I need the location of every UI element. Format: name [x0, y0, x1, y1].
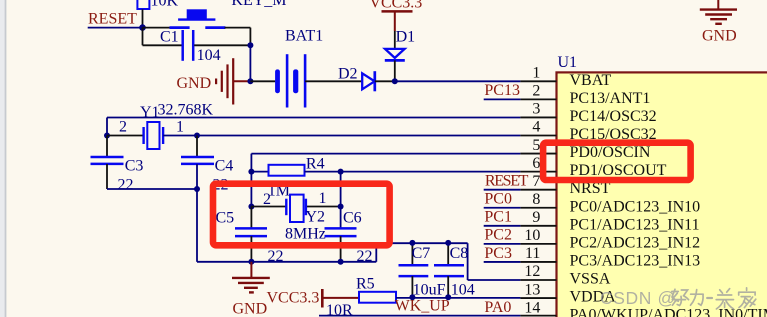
svg-text:2: 2	[119, 119, 127, 136]
node battery rail junction	[247, 78, 253, 84]
svg-text:VCC3.3: VCC3.3	[369, 0, 422, 12]
svg-text:PC3: PC3	[484, 245, 512, 262]
wire node to switch left contact	[143, 27, 171, 29]
node D1/D2 junction	[392, 78, 398, 84]
svg-text:Y2: Y2	[306, 209, 326, 226]
svg-text:2: 2	[532, 83, 540, 100]
svg-text:22: 22	[357, 248, 373, 265]
svg-text:PC1/ADC123_IN11: PC1/ADC123_IN11	[570, 216, 700, 233]
pin 9 PC1/ADC123_IN11	[520, 209, 699, 233]
svg-text:1: 1	[176, 119, 184, 136]
wire gnd drop to ground rail	[197, 164, 376, 262]
resistor R4 1M	[251, 156, 340, 200]
svg-text:D2: D2	[338, 66, 358, 83]
wire VDDA net to pin 13	[396, 297, 520, 299]
svg-text:GND: GND	[702, 28, 737, 45]
svg-text:GND: GND	[177, 75, 212, 92]
svg-text:10uF: 10uF	[413, 282, 446, 299]
node C6 gnd junction	[338, 259, 344, 265]
ground GND (sideways, near BAT1)	[177, 58, 251, 104]
svg-text:BAT1: BAT1	[285, 28, 323, 45]
svg-text:RESET: RESET	[88, 11, 137, 28]
svg-text:13: 13	[524, 281, 540, 298]
svg-text:PC2: PC2	[484, 227, 512, 244]
svg-text:5: 5	[532, 137, 540, 154]
svg-text:R4: R4	[306, 156, 325, 173]
power VCC3.3 (bottom)	[267, 289, 360, 308]
svg-text:C3: C3	[125, 158, 144, 175]
net label PC13	[484, 82, 520, 99]
wire PC3 stub	[484, 261, 521, 263]
pin 6 PD1/OSCOUT	[520, 155, 666, 179]
svg-text:1: 1	[319, 190, 327, 207]
wire PC1 stub	[484, 225, 521, 227]
resistor R5 10R	[326, 276, 396, 317]
node C8 top junction	[445, 240, 451, 246]
wire OSCOUT down	[340, 172, 342, 228]
svg-text:C7: C7	[412, 245, 431, 262]
pin 5 PD0/OSCIN	[520, 137, 650, 161]
capacitor C3 22	[91, 136, 144, 194]
node C5 gnd junction	[248, 259, 254, 265]
net label PC1	[484, 209, 512, 226]
svg-text:11: 11	[525, 245, 540, 262]
svg-text:10: 10	[524, 227, 540, 244]
wire down to battery rail	[249, 45, 251, 81]
net label PC3	[484, 245, 512, 262]
resistor R1 10K pull-up	[137, 0, 178, 10]
node Y1 pin2 junction	[104, 133, 110, 139]
capacitor C6 22	[325, 210, 373, 265]
node C7 bottom junction	[409, 294, 415, 300]
net label PC2	[484, 227, 512, 244]
wire switch right contact to corner	[225, 28, 251, 46]
svg-text:R5: R5	[356, 276, 375, 293]
node Y1 pin1 junction	[194, 133, 200, 139]
pin 12 VSSA	[520, 263, 610, 287]
node Y2 pin2 junction	[248, 204, 254, 210]
svg-text:8: 8	[532, 191, 540, 208]
crystal Y2 8MHz	[251, 190, 340, 243]
wire Y1 pin2 stub	[107, 135, 143, 137]
push button KEY_M	[170, 0, 287, 28]
wire RESET stub	[484, 189, 521, 191]
node C7 top junction	[409, 240, 415, 246]
net label WK_UP	[395, 298, 450, 315]
pin 11 PC3/ADC123_IN13	[520, 245, 700, 269]
wire gnd jog to VSSA	[376, 243, 520, 280]
wire WK_UP net to pin 14	[319, 315, 520, 317]
svg-text:C4: C4	[215, 158, 234, 175]
svg-text:PA0/WKUP/ADC123_IN0/TIM2_CH1_E: PA0/WKUP/ADC123_IN0/TIM2_CH1_ETR	[570, 307, 767, 317]
wire RESET stub	[88, 27, 143, 29]
watermark CSDN	[600, 288, 756, 309]
svg-text:PA0: PA0	[484, 299, 511, 316]
svg-text:32.768K: 32.768K	[158, 102, 214, 119]
ground GND (bottom)	[232, 262, 270, 317]
wire pin 6 net (PD1/OSCOUT)	[341, 171, 521, 173]
annotation red box around 8MHz crystal	[213, 184, 390, 246]
capacitor C4 22	[181, 136, 233, 194]
svg-text:2: 2	[263, 191, 271, 208]
crystal Y1 32.768K	[119, 102, 214, 150]
svg-text:GND: GND	[233, 301, 268, 317]
pin 1 VBAT	[520, 65, 611, 89]
node R4 right junction	[338, 169, 344, 175]
pin 7 NRST	[520, 173, 610, 197]
pin 2 PC13/ANT1	[520, 83, 650, 107]
svg-text:C6: C6	[343, 210, 362, 227]
svg-text:PC13/ANT1: PC13/ANT1	[570, 90, 651, 107]
pin 10 PC2/ADC123_IN12	[520, 227, 700, 251]
annotation red box around PD0/PD1 pins	[543, 143, 691, 180]
power VCC3.3 (top)	[369, 0, 422, 31]
svg-text:PC13: PC13	[484, 82, 520, 99]
svg-text:PD1/OSCOUT: PD1/OSCOUT	[570, 162, 667, 179]
svg-text:C5: C5	[216, 210, 235, 227]
wire OSCIN down	[250, 172, 252, 207]
svg-text:KEY_M: KEY_M	[231, 0, 286, 9]
svg-text:PC3/ADC123_IN13: PC3/ADC123_IN13	[570, 252, 701, 269]
wire pin 5 net (PD0/OSCIN)	[251, 154, 520, 172]
svg-text:C1: C1	[160, 29, 179, 46]
svg-text:22: 22	[268, 248, 284, 265]
wire pin 3 net (PC14/OSC32)	[107, 118, 520, 136]
battery BAT1	[250, 28, 362, 108]
pin 3 PC14/OSC32	[520, 101, 656, 125]
svg-text:CSDN @: CSDN @	[600, 288, 676, 308]
node C8 bottom junction	[445, 294, 451, 300]
capacitor C8 104	[434, 243, 475, 299]
node RESET junction	[139, 24, 146, 31]
svg-text:1: 1	[532, 65, 540, 82]
svg-text:10K: 10K	[151, 0, 179, 10]
svg-text:U1: U1	[558, 54, 578, 71]
node Y2 pin1 junction	[338, 204, 344, 210]
svg-text:6: 6	[532, 155, 540, 172]
net label RESET (left)	[88, 11, 137, 28]
svg-text:8MHz: 8MHz	[285, 226, 326, 243]
node C1 right junction	[247, 42, 253, 48]
pin 8 PC0/ADC123_IN10	[520, 191, 700, 215]
wire PC0 stub	[484, 207, 521, 209]
wire C3 bottom to C4 bottom (gnd)	[107, 188, 197, 190]
diode D1	[385, 28, 415, 81]
svg-text:3: 3	[532, 101, 540, 118]
svg-text:C8: C8	[450, 245, 469, 262]
svg-text:104: 104	[451, 282, 475, 299]
capacitor C5 22	[216, 207, 284, 265]
wire PC2 stub	[484, 243, 521, 245]
op-amp U1 (MCU part)	[557, 54, 767, 317]
svg-text:PC1: PC1	[484, 209, 512, 226]
svg-text:12: 12	[524, 263, 540, 280]
wire pin 4 net (PC15/OSC32)	[163, 135, 520, 137]
svg-text:WK_UP: WK_UP	[395, 298, 450, 315]
wire VBAT net to pin 1	[395, 80, 521, 82]
wire PC13 stub	[484, 98, 521, 100]
capacitor C1 104	[143, 28, 251, 64]
net label PA0	[484, 299, 511, 316]
svg-text:PC0: PC0	[484, 191, 512, 208]
svg-text:14: 14	[524, 299, 540, 316]
svg-text:PC2/ADC123_IN12: PC2/ADC123_IN12	[570, 234, 701, 251]
wire R1 to RESET node	[142, 9, 144, 27]
svg-text:9: 9	[532, 209, 540, 226]
svg-text:104: 104	[197, 47, 221, 64]
svg-text:PC14/OSC32: PC14/OSC32	[570, 108, 657, 125]
svg-text:4: 4	[532, 119, 540, 136]
pin 13 VDDA	[520, 281, 616, 305]
svg-text:VBAT: VBAT	[570, 72, 612, 89]
pin 14 PA0/WKUP/ADC123_IN0/TIM2_CH1_ETR	[520, 299, 767, 317]
svg-text:PD0/OSCIN: PD0/OSCIN	[570, 144, 651, 161]
svg-text:7: 7	[532, 173, 540, 190]
ground GND (top right)	[700, 0, 737, 45]
net label PC0	[484, 191, 512, 208]
svg-text:RESET: RESET	[485, 172, 529, 189]
node C4 bottom junction	[194, 186, 200, 192]
svg-text:22: 22	[118, 177, 134, 194]
node R4 left junction	[248, 169, 254, 175]
pin 4 PC15/OSC32	[520, 119, 656, 143]
svg-text:VSSA: VSSA	[570, 271, 611, 288]
diode D2	[338, 66, 395, 92]
capacitor C7 10uF	[399, 243, 446, 299]
svg-text:PC0/ADC123_IN10: PC0/ADC123_IN10	[570, 198, 701, 215]
net label RESET	[485, 172, 529, 189]
svg-text:D1: D1	[396, 28, 416, 45]
svg-text:VCC3.3: VCC3.3	[267, 290, 320, 307]
